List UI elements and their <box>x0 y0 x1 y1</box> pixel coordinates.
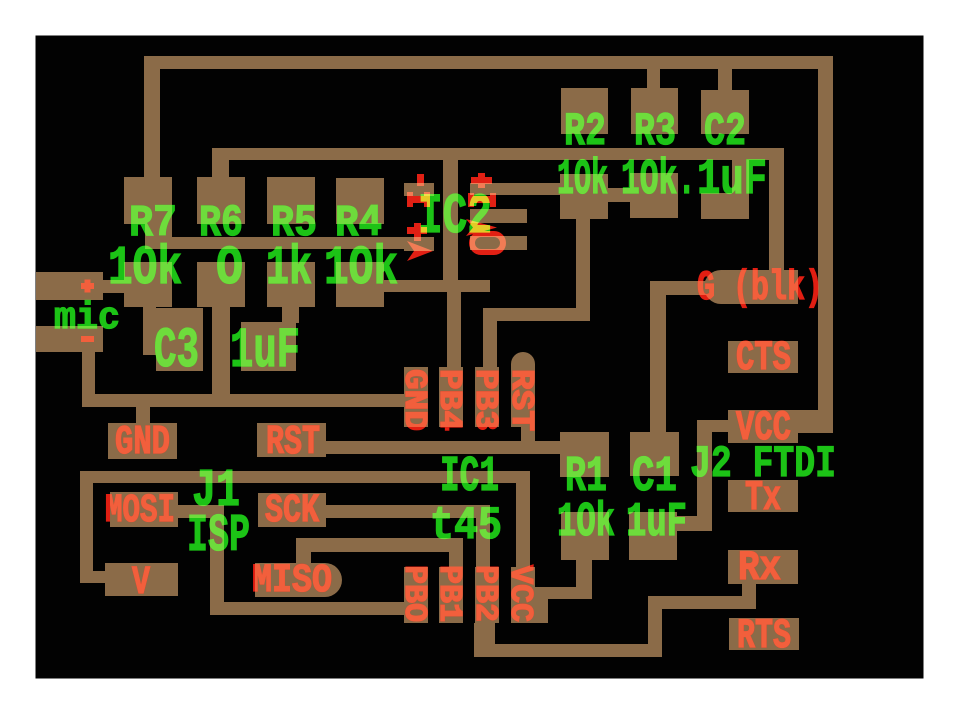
wire B right drop to G pad <box>769 160 784 272</box>
resistor R2 bottom pad <box>560 174 608 219</box>
wire PB2 riser <box>648 596 662 657</box>
capacitor C3 left pad <box>156 308 203 371</box>
IC1 pad RST (top row) <box>511 367 535 427</box>
wire RST J1 to R1 horizontal <box>326 441 560 454</box>
op-amp IC2 right pad 3 <box>470 236 527 250</box>
IC2 pin mark O right <box>472 234 503 252</box>
wire MISO horizontal <box>296 538 463 552</box>
resistor R5 bottom pad <box>267 262 315 307</box>
header J2 VCC pad <box>728 410 798 443</box>
mic minus pad <box>36 326 103 352</box>
wire MOSI vertical <box>210 518 224 615</box>
resistor R4 bottom pad <box>336 262 384 307</box>
wire GND horizontal trace <box>82 394 404 407</box>
pad G blk round cap <box>704 270 738 304</box>
IC1 pad PB1 (bottom row) <box>439 567 463 623</box>
wire PB3 vertical to pad <box>483 321 497 368</box>
wire R5 bottom stub to C3 right pad <box>282 307 299 323</box>
resistor R3 bottom pad <box>630 173 678 218</box>
wire V line horizontal <box>80 471 530 483</box>
wire A right drop to J2 VCC <box>818 69 833 433</box>
wire C1 bottom connector <box>677 516 699 531</box>
wire VCC pad side fill <box>534 599 548 623</box>
mic plus mark horizontal (over copper) <box>81 283 94 289</box>
header J2 Tx pad <box>728 480 798 512</box>
wire J2 VCC vertical to C1 <box>697 420 712 531</box>
wire R1 bottom to VCC pad <box>534 587 592 599</box>
capacitor C2 bottom pad <box>701 193 749 219</box>
IC1 pad PB0 (bottom row) <box>404 567 428 623</box>
resistor R1 bottom pad <box>561 512 609 560</box>
wire PB2 drop below pad <box>474 623 495 657</box>
capacitor C2 top pad <box>701 90 749 134</box>
IC1 pad PB3 (top row) <box>475 367 499 427</box>
header J1 MISO pad round cap <box>308 563 342 597</box>
wire A top rail horizontal <box>144 56 833 69</box>
wire R7 top pad to L1 connector <box>145 224 172 238</box>
wire RST riser to IC1 RST <box>521 427 535 443</box>
wire IC2 center T-bar <box>430 280 490 292</box>
resistor R4 top pad <box>336 178 384 224</box>
wire PB2 bottom horizontal <box>474 644 662 657</box>
wire B riser from C2 bottom <box>732 159 749 194</box>
wire B rail horizontal <box>212 148 784 160</box>
wire V line left drop <box>80 483 93 583</box>
IC1 RST pad neck <box>511 364 535 372</box>
mic minus mark (over copper) <box>81 336 94 342</box>
wire IC2 center descender to PB4 <box>447 292 461 368</box>
wire PB3 horizontal <box>483 308 590 321</box>
wire A left drop to R7 <box>144 69 160 177</box>
IC1 pad VCC (bottom row) <box>511 567 535 623</box>
header J2 CTS pad <box>728 341 798 373</box>
svg-text:R3: R3 <box>634 105 676 158</box>
wire SCK drop to PB2 <box>476 518 490 568</box>
mic plus mark horizontal <box>81 283 94 289</box>
resistor R6 top pad <box>197 177 245 224</box>
wire A to VCC pad connector <box>798 410 820 433</box>
resistor R2 top pad <box>561 88 608 134</box>
wire R7 bottom stub to C3 <box>143 307 156 355</box>
wire R2 bottom drop <box>576 219 590 321</box>
header J1 V pad <box>105 563 178 596</box>
svg-text:R2: R2 <box>564 105 606 158</box>
header J1 RST pad <box>257 423 326 457</box>
op-amp IC2 right pad 2 <box>470 209 527 223</box>
mic plus pad <box>36 272 103 300</box>
wire R1 bottom stub <box>576 560 592 588</box>
header J1 SCK pad <box>258 493 326 527</box>
header J2 RTS pad <box>729 618 799 650</box>
wire MISO stub up <box>296 552 311 564</box>
wire bridge R2-R3 bottoms <box>608 188 631 202</box>
wire mic minus drop <box>82 352 95 395</box>
IC2 pin mark V left <box>407 241 433 261</box>
mic plus mark vertical (over copper) <box>85 280 91 293</box>
header J1 MOSI pad <box>110 492 178 527</box>
wire V line right drop to IC1 VCC <box>516 483 530 568</box>
wire R4 bottom to IC2 center <box>384 280 430 292</box>
resistor R6 bottom pad <box>197 262 245 307</box>
resistor R7 top pad <box>124 177 172 224</box>
svg-text:1k: 1k <box>266 239 312 300</box>
wire J2 VCC stub left <box>697 420 728 432</box>
wire Rx stub <box>742 584 756 598</box>
wire MOSI bottom horizontal to PB0 <box>210 602 408 615</box>
IC2 pin mark V right <box>466 219 497 236</box>
capacitor C1 bottom pad <box>629 512 677 560</box>
header J2 Rx pad <box>728 550 798 584</box>
resistor R5 top pad <box>267 177 315 224</box>
op-amp IC2 left pad 2 <box>404 238 434 251</box>
IC2 pin mark minus left <box>417 174 424 186</box>
mic minus mark <box>81 336 94 342</box>
wire R6 bottom to GND trace <box>212 307 230 395</box>
wire A stub to C2 top <box>718 68 732 91</box>
IC2 pin mark I right <box>468 193 496 207</box>
op-amp IC2 left pad 1 <box>404 183 434 196</box>
IC1 pad GND (top row) <box>404 367 428 427</box>
wire V line corner to V pad <box>93 571 107 583</box>
header J1 GND pad <box>108 423 177 459</box>
mic plus mark vertical <box>85 280 91 293</box>
IC1 pad PB2 (bottom row) <box>475 567 499 623</box>
header J1 MISO pad <box>255 563 325 597</box>
wire B stub to R6 top <box>212 160 229 178</box>
IC1 pad PB4 (top row) <box>439 367 463 427</box>
resistor R3 top pad <box>631 88 678 134</box>
IC2 pin mark I left <box>407 192 430 207</box>
op-amp IC2 right pad 1 with bridge to R2 <box>470 183 560 195</box>
wire A stub to R3 top <box>647 68 660 89</box>
wire G to C1 vertical <box>650 295 666 432</box>
pad G blk body <box>721 270 798 304</box>
resistor R7 bottom pad <box>124 262 172 307</box>
wire Rx horizontal <box>648 596 756 609</box>
wire mic plus to R7 bottom <box>103 280 124 293</box>
wire MOSI stub <box>178 505 224 518</box>
svg-text:O: O <box>216 239 243 300</box>
capacitor C1 top pad <box>630 432 679 476</box>
wire MISO drop to PB1 <box>449 552 463 568</box>
capacitor C3 right pad <box>241 322 296 371</box>
IC1 RST pad round top <box>511 352 535 376</box>
wire GND trace stub to GND pad <box>136 407 150 424</box>
wire IC2 center vertical from B <box>443 160 458 281</box>
IC2 pin mark plus right <box>471 173 492 188</box>
svg-text:C2: C2 <box>704 105 746 158</box>
IC2 pin mark plus left <box>407 223 427 241</box>
wire G pad left connector <box>650 281 734 295</box>
wire L1 horizontal R7 to IC2 <box>145 237 434 249</box>
resistor R1 top pad <box>560 432 609 477</box>
wire SCK horizontal <box>326 505 490 518</box>
